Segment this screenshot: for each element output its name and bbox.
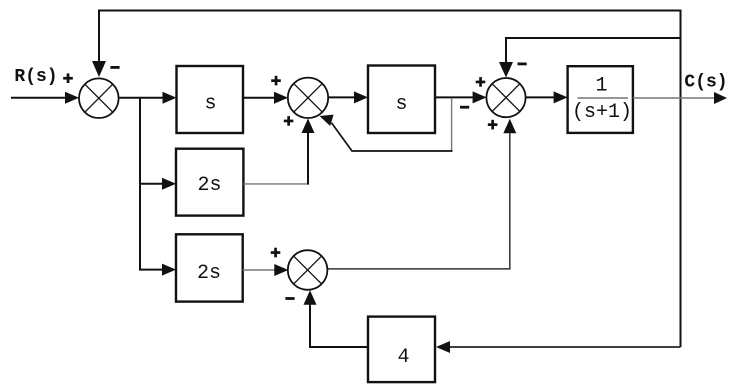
svg-text:C(s): C(s) bbox=[684, 73, 727, 93]
block 1/(s+1) bbox=[568, 66, 633, 133]
svg-text:s: s bbox=[395, 93, 407, 116]
wire block s1 to junction 2 bbox=[243, 97, 275, 99]
sign plus at junction 1 input bbox=[63, 73, 73, 83]
arrowhead into junction 2 (left) bbox=[274, 92, 288, 104]
block 2s upper bbox=[176, 149, 243, 216]
sign minus at junction 3 top bbox=[518, 63, 527, 66]
block s1 bbox=[177, 66, 244, 133]
wire junction 4 output up into junction 3 bbox=[328, 133, 510, 269]
svg-text:4: 4 bbox=[397, 346, 409, 369]
wire output line to C(s) bbox=[633, 97, 714, 99]
wire 2s lower to junction 4 bbox=[243, 269, 277, 271]
summing junction 3 bbox=[486, 78, 525, 117]
sign plus at junction 4 input bbox=[271, 248, 281, 258]
wire input R(s) to summing junction 1 bbox=[11, 97, 67, 99]
summing junction 2 bbox=[288, 78, 328, 118]
sign minus at junction 4 bottom bbox=[285, 297, 294, 300]
arrowhead into block s1 bbox=[163, 92, 177, 104]
arrowhead into block 4 (right side) bbox=[436, 341, 450, 353]
svg-text:s: s bbox=[204, 93, 216, 116]
wire junction1 to block s1 bbox=[119, 97, 165, 99]
arrowhead into block 2s lower bbox=[162, 264, 176, 276]
wire branch trunk down from main line bbox=[140, 98, 164, 270]
wire output node to block 4 input bbox=[449, 346, 681, 348]
arrowhead into junction 2 (lower right diagonal) bbox=[320, 115, 334, 126]
block 4 bbox=[368, 317, 435, 383]
arrowhead into junction 4 (left) bbox=[274, 264, 288, 276]
arrowhead into summing junction 1 (top, minus) bbox=[92, 61, 106, 77]
arrowhead into junction 4 (bottom, minus) bbox=[304, 290, 317, 305]
arrowhead into block 1/(s+1) bbox=[554, 91, 568, 103]
sign plus at junction 3 upper left bbox=[476, 77, 486, 87]
arrowhead into junction 3 (left) bbox=[473, 91, 487, 103]
wire block s2 to junction 3 bbox=[435, 96, 474, 98]
svg-text:2s: 2s bbox=[197, 174, 221, 197]
arrowhead into junction 2 (bottom) bbox=[302, 119, 315, 134]
wire junction 3 to block 1/(s+1) bbox=[526, 96, 555, 98]
svg-text:(s+1): (s+1) bbox=[572, 101, 632, 124]
wire branch to block 2s (upper) bbox=[140, 183, 164, 185]
wire top feedback from output node to summing junction 1 bbox=[99, 11, 681, 99]
wire 2s upper output up into junction 2 bbox=[243, 183, 307, 185]
arrowhead into block s2 bbox=[354, 91, 368, 103]
sign plus at junction 2 lower left bbox=[284, 116, 294, 126]
svg-text:2s: 2s bbox=[197, 262, 221, 285]
block 2s lower bbox=[176, 234, 243, 301]
wire tap on s2 output down bbox=[451, 98, 453, 151]
sign minus at junction 3 left input bbox=[460, 106, 469, 109]
wire junction 2 to block s2 bbox=[329, 96, 357, 98]
block s2 bbox=[368, 66, 435, 134]
sign plus at junction 2 upper left bbox=[271, 76, 281, 86]
sign minus at junction 1 top bbox=[110, 66, 119, 69]
summing junction 1 bbox=[79, 78, 119, 118]
wire inner feedback from output node to summing junction 3 bbox=[506, 38, 681, 64]
arrowhead into block 2s upper bbox=[162, 178, 176, 190]
wire output vertical trunk down to block 4 bbox=[680, 98, 682, 347]
arrowhead into summing junction 1 (left) bbox=[65, 92, 79, 104]
sign plus at junction 3 bottom bbox=[488, 120, 498, 130]
summing junction 4 bbox=[288, 250, 328, 290]
arrowhead into junction 3 (top, minus) bbox=[499, 62, 513, 78]
svg-text:R(s): R(s) bbox=[14, 67, 57, 87]
arrowhead output C(s) bbox=[714, 92, 727, 104]
arrowhead into junction 3 (bottom, plus) bbox=[503, 119, 516, 134]
wire block 4 output to junction 4 bbox=[310, 304, 368, 348]
wire loop back to junction 2 (diagonal) bbox=[332, 123, 453, 151]
svg-text:1: 1 bbox=[595, 75, 607, 98]
